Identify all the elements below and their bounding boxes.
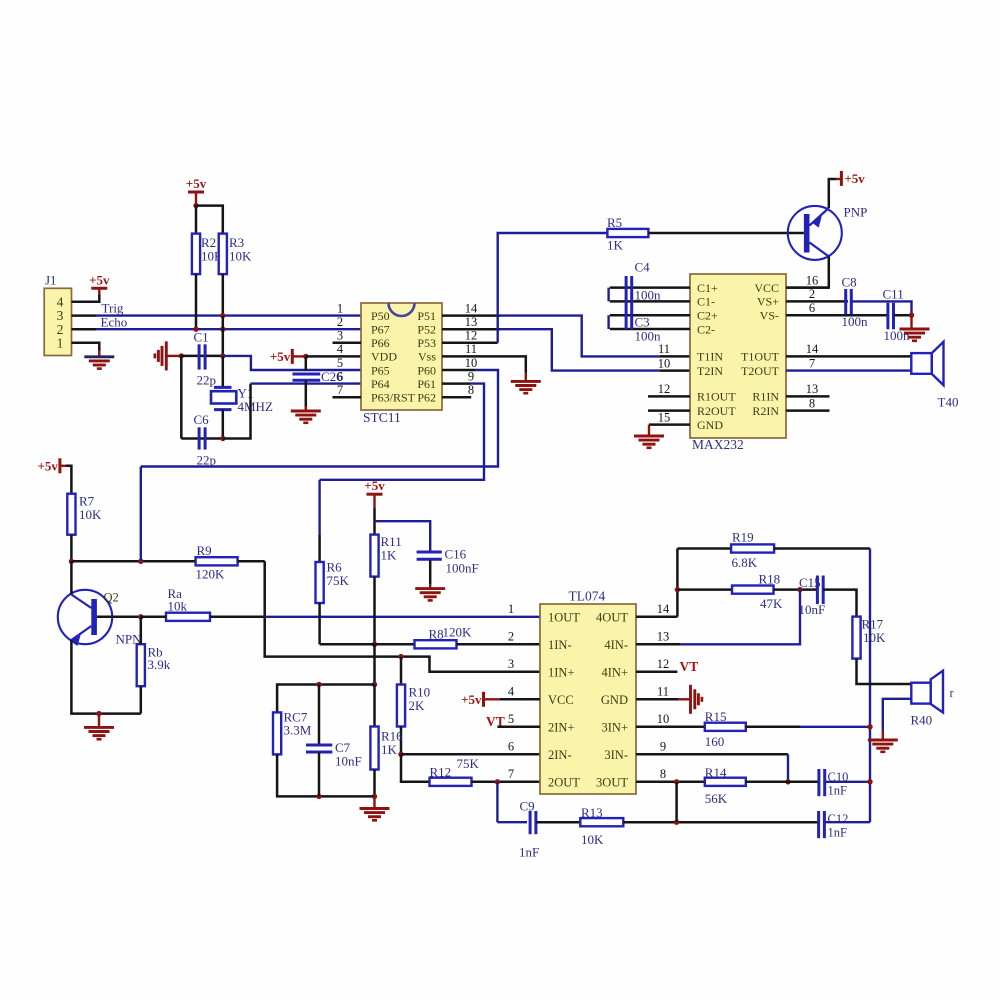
wire emitter gnd stub [98,714,100,728]
svg-text:120K: 120K [196,567,226,582]
wire +5v R11 red [373,494,375,507]
svg-text:6: 6 [337,369,343,383]
svg-text:2IN-: 2IN- [548,748,572,762]
svg-text:4: 4 [337,342,344,356]
junction [193,203,198,208]
capacitor C9 [519,799,539,860]
wire R16 mid1 [373,644,376,684]
IC U1 STC11 [361,303,442,425]
wire 4OUT up [676,549,679,617]
junction [785,779,790,784]
svg-text:56K: 56K [705,791,728,806]
svg-text:R40: R40 [911,713,933,728]
net label VT pin5 [486,714,505,729]
svg-text:C11: C11 [883,287,904,302]
svg-text:R8: R8 [429,627,444,642]
junction [220,353,225,358]
ground C26 [291,411,321,423]
svg-text:VS+: VS+ [757,295,779,309]
+5V power R11 [364,478,385,494]
svg-text:3: 3 [508,657,514,671]
wire C7 bottom [318,752,321,796]
junction [138,614,143,619]
+5V power TL074 [461,692,483,707]
svg-text:7: 7 [508,767,514,781]
svg-text:4OUT: 4OUT [596,610,628,624]
svg-text:10nF: 10nF [335,754,362,769]
svg-text:6: 6 [508,740,514,754]
resistor Rb [137,644,171,686]
svg-text:+5v: +5v [89,272,110,287]
wire 2IN+ stub [497,726,540,729]
wire 4OUT stub [636,616,677,619]
svg-text:Echo: Echo [101,314,128,329]
svg-text:120K: 120K [443,625,473,640]
svg-text:10: 10 [658,356,671,370]
wire 3IN+ stub [636,726,705,729]
wire crystal drop [222,316,225,356]
svg-text:P62: P62 [417,391,436,405]
svg-text:C16: C16 [445,547,467,562]
wire 4IN- stub [636,643,680,646]
ground Q2 [84,727,114,739]
junction [867,779,872,784]
svg-text:+5v: +5v [37,458,58,473]
wire 4IN+ stub [636,671,677,674]
wire R16 mid2 [373,685,376,727]
svg-text:P67: P67 [371,323,390,337]
resistor R14 [705,765,746,806]
svg-text:11: 11 [658,342,670,356]
+5V power PNP [841,171,865,186]
resistor R8 [415,625,473,649]
wire P53 stub [442,342,498,345]
wire R40 gnd stub [882,730,884,740]
svg-text:R1IN: R1IN [752,390,779,404]
svg-text:J1: J1 [45,273,57,288]
svg-text:Vss: Vss [418,350,436,364]
svg-text:13: 13 [465,315,478,329]
resistor R12 [430,756,480,786]
svg-text:10nF: 10nF [799,602,826,617]
capacitor C6 [194,412,217,468]
wire R1IN stub [786,395,830,398]
svg-text:P65: P65 [371,363,390,377]
svg-text:8: 8 [468,383,474,397]
svg-text:R2IN: R2IN [752,404,779,418]
svg-text:R14: R14 [705,765,727,780]
svg-text:C2-: C2- [697,322,715,336]
wire R9 to corner [238,560,265,563]
junction [193,327,198,332]
+5V power R2/R3 [186,176,207,192]
svg-text:R15: R15 [705,709,727,724]
svg-text:T2OUT: T2OUT [741,364,780,378]
wire gnd stub R16 [373,796,375,808]
svg-text:10: 10 [657,712,670,726]
svg-text:100nF: 100nF [446,561,479,576]
svg-text:5: 5 [337,356,343,370]
svg-text:160: 160 [705,734,725,749]
svg-text:3: 3 [337,329,343,343]
wire C3 loop [607,315,609,329]
svg-text:11: 11 [465,342,477,356]
wire C16 bottom [429,560,432,584]
svg-text:7: 7 [809,356,815,370]
wire PNP collector to VCC [786,257,829,288]
resistor R16 [370,727,403,770]
svg-text:GND: GND [601,693,628,707]
wire T1IN stub [660,355,690,358]
svg-text:10: 10 [465,356,478,370]
capacitor C3 labels [635,315,662,344]
svg-text:10k: 10k [168,599,188,614]
svg-text:16: 16 [806,273,819,287]
wire C7 top [318,685,321,746]
wire P61 to R6 a [318,480,320,535]
svg-text:+5v: +5v [364,478,385,493]
wire R3 top [196,206,223,234]
svg-text:1: 1 [508,602,514,616]
svg-text:1K: 1K [607,238,624,253]
wire R10 bottom [400,727,403,755]
svg-text:14: 14 [806,342,819,356]
wire C2+ row [610,314,690,317]
+5V power J1 [89,272,110,288]
junction [220,313,225,318]
svg-text:13: 13 [657,630,670,644]
svg-text:C15: C15 [799,575,821,590]
svg-text:12: 12 [658,382,671,396]
svg-text:R19: R19 [732,530,754,545]
wire C16 gnd stub [429,584,431,588]
svg-text:P52: P52 [417,323,436,337]
resistor R10 [397,685,430,727]
svg-text:C3: C3 [635,315,650,330]
wire C4 loop [607,288,609,302]
wire 3IN- down [787,754,789,782]
ground TL074 [691,685,702,714]
svg-text:10K: 10K [581,832,604,847]
wire +5v VCC red [484,698,501,700]
wire R7 bottom [70,535,73,562]
svg-text:2: 2 [337,315,343,329]
wire R2OUT stub [648,409,690,412]
svg-text:75K: 75K [327,573,350,588]
junction [675,587,680,592]
svg-text:P64: P64 [371,377,390,391]
wire R1OUT stub [648,395,690,398]
wire C1 to P65 [223,356,361,370]
svg-text:2: 2 [809,287,815,301]
svg-text:4IN+: 4IN+ [602,665,629,679]
capacitor C10 [819,769,848,798]
junction [69,559,74,564]
resistor R5 [607,215,648,253]
svg-text:3IN+: 3IN+ [602,720,629,734]
svg-text:T1IN: T1IN [697,350,723,364]
resistor R11 [370,534,401,577]
wire C26 top [305,356,308,371]
junction [220,436,225,441]
wire 1IN+ stub [505,671,540,674]
junction [495,779,500,784]
wire R10 top [400,657,403,685]
wire R5 to PNP base [648,232,804,235]
IC U2 pin numbers [658,273,819,424]
wire gnd stub [98,351,100,357]
svg-text:3.3M: 3.3M [284,723,312,738]
wire R40 bottom [883,699,912,730]
wire R2 bottom [195,274,198,329]
svg-text:R18: R18 [759,572,781,587]
wire gnd red stub [679,698,691,700]
wire J1 pin4 [72,295,100,302]
svg-text:P63/RST: P63/RST [371,391,416,405]
wire P60 route [141,370,498,467]
wire R6 bottom [318,603,321,644]
wire node row R7/R9 [71,560,195,563]
wire +5v to VDD [292,355,306,357]
wire T2OUT row [786,369,911,371]
wire R9 route down [265,561,401,656]
wire R2IN stub [786,409,830,412]
svg-text:R1OUT: R1OUT [697,390,736,404]
wire Trig net [96,314,361,316]
speaker T40 [911,342,958,410]
svg-text:1nF: 1nF [519,845,539,860]
wire Q2 collector [70,561,73,594]
ground MAX232 [634,436,664,448]
svg-text:R13: R13 [581,805,603,820]
wire gnd to C1 [168,355,182,357]
svg-text:3OUT: 3OUT [596,775,628,789]
wire P64 row [251,382,362,384]
svg-text:VS-: VS- [760,309,779,323]
svg-text:1IN+: 1IN+ [548,665,575,679]
svg-text:P51: P51 [417,309,436,323]
net label Echo [101,314,128,329]
resistor R2 [192,234,224,275]
wire Vss gnd stub [525,373,527,382]
wire VS- row [786,314,888,317]
wire RC7 row top [277,685,374,713]
svg-text:3.9k: 3.9k [148,657,171,672]
svg-text:2OUT: 2OUT [548,775,580,789]
svg-text:1nF: 1nF [828,784,848,798]
wire P62 stub [442,396,471,399]
svg-text:15: 15 [658,410,671,424]
wire VCC stub [500,698,540,701]
resistor R13 [580,805,623,847]
svg-text:P50: P50 [371,309,390,323]
wire pin8 node drop [675,782,678,822]
junction [909,313,914,318]
wire +5v to R2/R3 [195,192,197,206]
wire C9 row [497,821,527,823]
svg-text:4IN-: 4IN- [604,638,628,652]
wire P52 to T2IN b [500,329,660,370]
svg-text:7: 7 [337,383,343,397]
svg-text:C9: C9 [520,799,535,814]
wire Ra left [141,616,166,619]
svg-text:1: 1 [57,335,64,350]
wire R8 to 1IN- [457,643,541,646]
svg-text:T2IN: T2IN [697,364,723,378]
connector J1 [44,288,71,355]
wire +5v stub [98,288,100,294]
svg-text:C8: C8 [842,275,857,290]
svg-text:8: 8 [809,396,815,410]
wire R18 to C15 [774,588,818,591]
wire P60 drop [140,467,142,562]
resistor R17 [852,617,886,659]
IC U1 pin names [371,309,436,405]
wire C6 row [181,437,223,440]
capacitor C16 [417,547,479,576]
svg-text:C12: C12 [828,812,849,826]
svg-text:R2OUT: R2OUT [697,404,736,418]
resistor Ra [166,586,210,621]
svg-text:P60: P60 [417,363,436,377]
svg-text:47K: 47K [760,596,783,611]
svg-text:+5v: +5v [844,171,865,186]
wire C9 to R13 [536,821,580,824]
wire C1 gnd-side down [180,356,183,439]
svg-text:C1-: C1- [697,295,715,309]
wire C16 branch [375,521,431,551]
svg-text:R9: R9 [197,543,212,558]
transistor Q2 NPN [58,590,142,647]
wire GND drop [648,425,650,436]
svg-text:C2+: C2+ [697,309,718,323]
svg-text:4: 4 [508,685,515,699]
svg-text:1: 1 [337,301,343,315]
wire VS+ to C11 node [851,301,911,315]
wire 2IN- row [401,753,540,756]
svg-text:T40: T40 [938,395,959,410]
wire 2OUT down [496,782,498,822]
junction [138,559,143,564]
+5V power VDD [270,349,292,364]
wire C1- row [610,300,690,303]
wire T2IN stub [660,369,690,372]
resistor R9 [196,543,238,582]
wire 3OUT stub [636,781,705,784]
svg-text:2IN+: 2IN+ [548,720,575,734]
ground J1 [84,357,114,369]
wire T1OUT row [786,355,911,358]
wire P60 stub [442,369,475,372]
svg-text:13: 13 [806,382,819,396]
crystal Y1 [211,386,273,414]
resistor RC7 [273,710,312,755]
wire R17 bottom [857,659,912,684]
wire P52 to T2IN a [442,328,500,331]
wire R6/R11 to R8 [320,643,415,646]
svg-text:+5v: +5v [270,349,291,364]
wire R12 drop [401,754,430,782]
svg-text:3IN-: 3IN- [604,748,628,762]
wire J1 pin1 [72,343,100,351]
junction [372,794,377,799]
svg-text:1nF: 1nF [828,826,848,840]
svg-text:22p: 22p [197,373,217,388]
resistor R19 [731,530,774,571]
wire Rb top [140,617,143,644]
svg-text:VCC: VCC [548,693,574,707]
svg-text:VT: VT [680,659,699,674]
wire R14 to C10 [746,781,819,784]
IC U3 pin numbers [508,602,670,781]
svg-text:10K: 10K [79,507,102,522]
wire R15 right b [800,726,870,728]
resistor R7 [67,494,102,535]
ground C11 [900,329,930,341]
ground analog [360,809,390,821]
junction [867,724,872,729]
junction [220,327,225,332]
svg-text:STC11: STC11 [363,410,401,425]
wire Rb bottom [140,686,143,713]
wire feedback vertical [869,549,871,823]
wire C12 right [825,821,870,823]
wire R19 row left [677,547,731,550]
net label Trig [102,301,124,316]
wire R12 to 2OUT [472,781,541,784]
wire GND stub [649,423,690,426]
capacitor C1 [194,330,217,388]
svg-text:TL074: TL074 [569,589,606,604]
junction [316,794,321,799]
svg-text:10K: 10K [863,630,886,645]
svg-text:1K: 1K [381,742,398,757]
resistor R3 [219,234,252,275]
wire P51 to T1IN a [442,314,500,317]
svg-text:75K: 75K [457,756,480,771]
resistor R15 [705,709,746,749]
wire C15 to R17 [823,590,856,617]
svg-text:14: 14 [465,301,478,315]
wire node to 1IN+ [401,657,505,672]
svg-text:9: 9 [468,369,474,383]
wire R11 top [373,508,376,535]
svg-text:100n: 100n [635,329,662,344]
svg-text:PNP: PNP [844,205,868,220]
junction [372,682,377,687]
wire R7 top [66,466,71,494]
ground R40 [868,740,898,752]
svg-text:Trig: Trig [102,301,124,316]
wire C1+ row [610,286,690,289]
wire C1 to Y1 [222,356,225,388]
IC U2 MAX232 [690,274,786,452]
svg-text:14: 14 [657,602,670,616]
junction [398,752,403,757]
wire C1 row [181,355,223,358]
wire R19 row right [774,547,870,550]
svg-text:11: 11 [657,685,669,699]
svg-text:1K: 1K [381,548,398,563]
svg-text:MAX232: MAX232 [692,437,744,452]
wire C26 gnd stub [305,406,307,411]
svg-text:6.8K: 6.8K [732,555,758,570]
junction [316,682,321,687]
wire C2- row [610,328,690,331]
wire P61 route [320,384,484,480]
svg-text:8: 8 [660,767,666,781]
wire +5v R7 stub [60,465,66,467]
